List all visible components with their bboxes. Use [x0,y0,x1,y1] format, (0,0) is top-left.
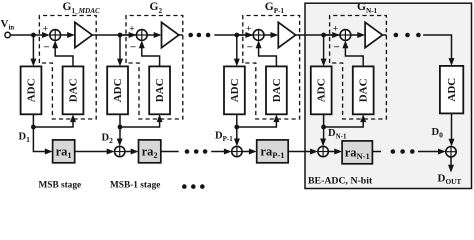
svg-text:ADC: ADC [316,78,328,102]
MDAC dashed boundary, stage 1 [39,16,96,120]
svg-text:–: – [333,42,340,53]
sub-ADC stage 2 [107,66,128,114]
BE-ADC back-end block (solid box, N-bit back-end ADC) [305,3,472,188]
op-amp / residue amplifier stage 1 [75,22,92,47]
arrowhead into summer minus [52,40,58,48]
summer (subtractor) stage 2 [136,30,147,41]
svg-text:–: – [43,42,50,53]
summer BP-1 (digital adder) [232,146,242,156]
arrowhead into raN-1 [334,149,342,155]
arrowhead into ra1 [45,149,53,155]
summer B2 (digital adder) [115,146,125,156]
DAC stage N-1 [353,66,374,114]
wire Dout from output summer [450,157,452,166]
arrowhead into summer BP-1 [224,149,232,155]
wire raN-1 output stub [372,151,381,153]
svg-text:ADC: ADC [26,78,38,102]
svg-text:MSB stage: MSB stage [39,181,82,191]
wire junction down to sub-ADC [119,35,121,60]
arrowhead into ra2 [131,149,139,155]
summer (subtractor) stage P-1 [253,30,264,41]
arrowhead into sub-ADC [321,59,327,67]
svg-text:ADC: ADC [446,78,458,102]
wire raP-1 to summer BN-1 [288,151,311,153]
svg-text:ADC: ADC [112,78,124,102]
arrowhead into DAC [157,114,163,122]
register raP-1 [257,140,289,163]
svg-text:–: – [246,42,253,53]
register raN-1 [342,141,372,164]
svg-text:MSB-1 stage: MSB-1 stage [110,181,160,191]
sub-ADC stage 1 [21,66,42,114]
wire amp P-1 output to stage N-1 junction [296,34,341,36]
arrowhead into summer minus [256,40,262,48]
DAC stage 1 [63,66,84,114]
node DP-1 [234,125,239,130]
wire ra1 to summer B2 [75,151,109,153]
wire DAC output to summer minus input [259,47,277,67]
arrowhead into output summer left [438,149,446,155]
ellipsis between stage captions [182,184,187,189]
arrowhead into amp [67,32,75,38]
wire D node to DAC input [120,120,160,127]
MDAC dashed boundary, stage 2 [126,16,183,120]
register ra1 (alignment register) [53,140,75,163]
wire rail into back-end ADC [423,35,451,60]
wire amp N-1 output stub [382,34,386,36]
arrowhead into summer [129,32,137,38]
arrowhead into sub-ADC [234,59,240,67]
wire DAC output to summer minus input [142,47,160,67]
arrowhead into amp [154,32,162,38]
arrowhead into sub-ADC [30,59,36,67]
wire node DN-1 down to summer BN-1 [323,127,325,140]
wire summer to amp [264,34,272,36]
svg-text:BE-ADC, N-bit: BE-ADC, N-bit [308,176,373,187]
wire into summer BP-1 [211,151,225,153]
arrowhead into summer minus [342,40,348,48]
arrowhead into DAC [273,114,279,122]
wire junction down to sub-ADC [32,35,34,60]
wire DAC output to summer minus input [55,47,73,67]
arrowhead into summer minus [139,40,145,48]
node stage 2 input junction [118,33,123,38]
arrowhead into summer B2 [107,149,115,155]
wire summer to amp [147,34,155,36]
op-amp / residue amplifier stage N-1 [365,22,382,47]
arrowhead into summer BN-1 top [320,139,326,147]
wire amp2 output stub [179,34,183,36]
wire sub-ADC output to node DP-1 [236,114,238,127]
wire rail to stage P-1 junction [214,34,253,36]
wire summer BN-1 to raN-1 [328,151,336,153]
wire ra2 output stub [161,151,179,153]
arrowhead into summer [245,32,253,38]
wire node D1 down to register ra1 [33,127,46,152]
sub-ADC stage N-1 [311,66,332,114]
node stage P-1 input junction [234,33,239,38]
ellipsis on correction chain after raN-1 [391,149,396,154]
arrowhead into summer BN-1 [310,149,318,155]
wire summer B2 to ra2 [125,151,132,153]
terminal Vin [5,32,10,37]
node DN-1 [321,125,326,130]
wire summer to amp [351,34,359,36]
arrowhead into output summer [449,139,455,147]
arrowhead into summer BP-1 top [234,139,240,147]
arrowhead Dout [448,165,454,173]
DAC stage P-1 [266,66,287,114]
node D1 [31,125,36,130]
svg-text:ADC: ADC [229,78,241,102]
arrowhead into amp [357,32,365,38]
summer BN-1 (digital adder) [318,146,328,156]
wire D node to DAC input [33,120,73,127]
wire junction to summer [324,34,334,36]
wire into output summer [418,151,440,153]
MDAC dashed boundary, stage P-1 [243,16,300,120]
wire node D2 down to summer B2 [119,127,121,140]
wire junction to summer [120,34,130,36]
wire D node to DAC input [324,120,364,127]
DAC stage 2 [149,66,170,114]
arrowhead into DAC [70,114,76,122]
wire Vin to stage-1 junction [10,34,33,36]
arrowhead into sub-ADC [117,59,123,67]
wire junction down to sub-ADC [236,35,238,60]
summer (subtractor) stage N-1 [340,30,351,41]
wire node DP-1 down to summer BP-1 [236,127,238,140]
node stage N-1 input junction [321,33,326,38]
wire junction to summer [237,34,247,36]
op-amp / residue amplifier stage 2 [162,22,179,47]
wire summer to amp [61,34,69,36]
wire DAC output to summer minus input [345,47,363,67]
wire junction down to sub-ADC [323,35,325,60]
MDAC dashed boundary, stage N-1 [330,16,387,120]
arrowhead into raP-1 [249,149,257,155]
wire flash ADC output down (node D0) [451,113,453,140]
arrowhead into summer [332,32,340,38]
wire amp1 output to stage-2 junction [92,34,137,36]
svg-text:DAC: DAC [154,78,166,102]
wire D node to DAC input [237,120,277,127]
wire summer BP-1 to raP-1 [242,151,250,153]
summer B0 (output digital adder) [446,147,456,157]
svg-text:DAC: DAC [358,78,370,102]
wire sub-ADC output to node D1 [32,114,34,127]
svg-text:DAC: DAC [271,78,283,102]
arrowhead into back-end ADC [449,58,455,66]
wire junction to summer [33,34,43,36]
wire sub-ADC output to node D2 [119,114,121,127]
summer (subtractor) stage 1 [50,30,61,41]
svg-text:DAC: DAC [68,78,80,102]
node stage 1 input junction [31,33,36,38]
wire sub-ADC output to node DN-1 [323,114,325,127]
node D2 [118,125,123,130]
arrowhead into summer [42,32,50,38]
ellipsis on rail after stage N-1 [394,33,399,38]
flash ADC (last back-end stage) [440,66,463,114]
arrowhead into DAC [360,114,366,122]
arrowhead into amp [271,32,279,38]
arrowhead into summer B2 top [117,139,123,147]
op-amp / residue amplifier stage P-1 [278,22,295,47]
svg-text:–: – [130,42,137,53]
ellipsis on rail after stage 2 [188,33,193,38]
ellipsis on correction chain after ra2 [185,149,190,154]
sub-ADC stage P-1 [224,66,245,114]
register ra2 [139,140,161,163]
